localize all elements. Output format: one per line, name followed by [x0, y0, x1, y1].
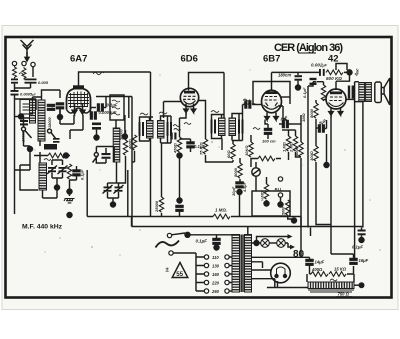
wire rail down	[179, 153, 181, 198]
triangle 55	[172, 263, 188, 278]
resistor 100	[314, 146, 318, 161]
tuning gang cap CV4	[115, 187, 123, 189]
node dot in box	[264, 201, 269, 206]
speaker field coil	[308, 282, 354, 289]
wire resistor row	[34, 155, 70, 157]
wire top of 1M 2M	[282, 129, 296, 131]
wire drop	[90, 108, 92, 116]
tuning gang cap CV3	[104, 187, 112, 189]
antenna	[21, 40, 34, 60]
capacitor 6D6 grid	[171, 133, 173, 140]
transformer IF1 unit B cap	[167, 122, 169, 136]
terminal mains	[169, 251, 173, 255]
output transformer coil A	[359, 83, 365, 102]
coil osc padder	[113, 128, 120, 162]
wire	[115, 120, 118, 183]
resistor box 30K	[44, 144, 57, 150]
coil L3 osc grid	[38, 100, 45, 141]
node dot osc	[28, 147, 33, 152]
wire join caps	[15, 84, 31, 88]
resistor 1M	[286, 136, 290, 151]
svg-text:0.1μF: 0.1μF	[196, 239, 208, 244]
svg-text:0.1μF: 0.1μF	[352, 245, 363, 250]
wire heater stub below bus	[310, 228, 312, 237]
power transformer primary	[232, 235, 240, 293]
svg-text:6D6: 6D6	[181, 54, 198, 65]
capacitor 6B7 plate decoupling	[297, 72, 299, 75]
wire taps to primary	[229, 257, 232, 291]
node dot loop	[19, 114, 24, 119]
svg-text:75 K Ω: 75 K Ω	[199, 141, 204, 155]
wire 50000 to dot	[288, 216, 292, 219]
svg-text:0.1μF: 0.1μF	[80, 169, 85, 180]
svg-text:30μF: 30μF	[231, 186, 236, 196]
resistor 75K	[205, 133, 207, 139]
resistor 60 ohm	[231, 144, 235, 159]
resistor grid leak	[321, 85, 325, 100]
label squiggle gang	[44, 159, 51, 161]
wire to coil top	[15, 99, 37, 110]
label squiggle 6B7 bias	[253, 128, 260, 130]
node dot 5000	[292, 218, 297, 223]
label squiggle field coil	[330, 279, 337, 281]
wire S1	[24, 118, 31, 146]
capacitor ant C2	[25, 79, 37, 81]
power transformer secondary	[245, 235, 252, 293]
label squiggle near 6D6 screen	[184, 123, 191, 125]
resistor 50000 vertical	[286, 200, 290, 215]
mains tilde	[156, 241, 180, 248]
svg-text:160: 160	[212, 272, 220, 277]
voltage taps right column	[225, 255, 229, 259]
ground main	[67, 213, 72, 218]
capacitor 30uF	[236, 182, 243, 188]
tube 6D6	[180, 88, 198, 112]
tube 6A7	[67, 85, 91, 114]
wire 6D6 grid riser	[189, 73, 225, 91]
svg-text:80: 80	[293, 249, 305, 260]
wire 6B7 screen box	[253, 82, 290, 105]
volume pot circle	[252, 168, 260, 176]
output transformer coil B	[366, 83, 372, 102]
capacitor 0.1 right	[361, 228, 363, 230]
bus A earth	[132, 216, 214, 218]
jack panel box	[252, 191, 290, 216]
power transformer core	[241, 235, 243, 293]
svg-text:0.1μF: 0.1μF	[302, 87, 307, 98]
svg-text:220: 220	[211, 281, 220, 286]
gang box wall left	[86, 170, 88, 217]
resistor zigzag padding	[48, 153, 65, 158]
wire HV to 80 lower	[252, 269, 273, 271]
gang box bottom	[87, 216, 131, 218]
wire cap to resistor	[310, 265, 312, 274]
wire heater bus	[96, 96, 132, 98]
resistor half meg	[264, 184, 268, 199]
voltage taps left column	[204, 255, 208, 259]
node dot cathode	[67, 189, 72, 194]
wire cathode to ground	[70, 180, 77, 196]
node dot under cap	[214, 245, 219, 250]
capacitor 16uF	[350, 259, 357, 265]
svg-text:0.002μF: 0.002μF	[311, 63, 328, 68]
resistor 1M bus	[213, 214, 230, 219]
resistor 600	[299, 142, 303, 157]
output transformer primary loop	[355, 82, 363, 102]
transformer IF2 unit A cap	[211, 120, 213, 134]
wire rail x354.6 down	[354, 102, 356, 258]
wire dot link	[24, 146, 31, 152]
node dot below cap	[296, 85, 301, 90]
wire 6B7 top to 42 grid chain	[272, 71, 320, 73]
capacitor mica left	[20, 120, 28, 122]
field coil core lines	[308, 290, 354, 292]
wire heater arrow top	[257, 237, 289, 244]
resistor 10K	[250, 135, 252, 142]
wire left rail	[14, 99, 16, 214]
svg-text:2 MΩ: 2 MΩ	[289, 141, 294, 153]
switch padder	[94, 153, 98, 157]
capacitor 8uF output	[348, 86, 350, 99]
wire rail x161 down with resistor 25000	[161, 143, 163, 197]
svg-text:8000: 8000	[309, 108, 314, 118]
resistor 8000	[314, 103, 318, 118]
wire left column links	[15, 117, 31, 171]
wire 6B7 grid cap riser	[271, 72, 273, 90]
svg-text:100Ω: 100Ω	[309, 150, 314, 161]
wire osc links	[40, 140, 57, 198]
node dot gang	[55, 185, 60, 190]
node dot field	[359, 282, 365, 288]
svg-text:55: 55	[176, 271, 183, 278]
switch S1 wave change	[22, 127, 26, 131]
svg-text:1MΩ: 1MΩ	[301, 112, 306, 122]
svg-text:260: 260	[211, 289, 220, 294]
transformer IF2 unit B coil	[229, 118, 236, 136]
svg-text:100cm: 100cm	[243, 101, 256, 106]
node dot	[58, 115, 63, 120]
svg-text:M.F. 440 kHz: M.F. 440 kHz	[22, 224, 63, 231]
capacitor 0.0005	[91, 112, 97, 119]
capacitor screen 0.1	[180, 139, 191, 142]
node dot resistor row	[64, 153, 69, 158]
wire gang	[52, 160, 63, 186]
bus A continue	[231, 216, 301, 218]
coupler loop top left	[20, 100, 33, 115]
svg-text:180cm: 180cm	[278, 73, 291, 78]
ground	[64, 199, 75, 203]
svg-text:15 KΩ: 15 KΩ	[334, 267, 347, 272]
wire 6B7 pin to rail	[292, 123, 301, 125]
wire 6A7 plate stub	[90, 107, 96, 109]
svg-text:14μF: 14μF	[315, 260, 325, 265]
wire rail x308	[308, 82, 316, 228]
svg-text:130: 130	[212, 264, 220, 269]
wire 80 filament out	[267, 281, 308, 288]
schematic border frame	[6, 37, 392, 298]
capacitor osc 0.1	[73, 170, 80, 176]
svg-text:6B7: 6B7	[263, 54, 280, 65]
capacitor C3 0.0001uF	[11, 90, 19, 92]
node dot	[177, 198, 182, 203]
node dot 42 grid	[347, 70, 352, 75]
wire loop over 500K	[336, 64, 347, 71]
wire IF1 tops	[140, 116, 172, 122]
svg-text:1 MΩ.: 1 MΩ.	[215, 208, 227, 213]
trimmer cap osc	[53, 138, 60, 140]
tube 80	[271, 263, 291, 283]
node dot end	[324, 163, 329, 168]
resistor osc 4000	[67, 164, 71, 179]
svg-text:100 cm: 100 cm	[262, 139, 276, 144]
svg-text:500 KΩ: 500 KΩ	[326, 76, 342, 81]
coil L1 antenna	[13, 66, 17, 78]
tube 6B7	[262, 90, 282, 120]
resistor 450 ohm	[177, 137, 181, 152]
wire IF2 mid drop	[221, 139, 223, 151]
wire rail x224 to IF2	[223, 73, 225, 119]
svg-text:½MΩ: ½MΩ	[260, 190, 265, 201]
switch mains	[167, 233, 171, 237]
wire rail x331 to bus	[331, 115, 354, 259]
svg-text:60Ω: 60Ω	[226, 150, 231, 158]
capacitor 14uF	[306, 260, 313, 266]
wire terminal 3 drop	[32, 67, 34, 77]
svg-text:6A7: 6A7	[70, 54, 87, 65]
tube 42	[326, 89, 346, 109]
wire antenna lead-in arrow	[25, 52, 29, 61]
svg-text:8000: 8000	[233, 167, 238, 177]
wire 6D6 cathode rail	[180, 112, 187, 137]
tuning gang cap CV2	[59, 167, 67, 169]
speaker cone	[381, 78, 390, 105]
transformer IF1 unit A cap	[139, 122, 141, 136]
node dot	[237, 190, 242, 195]
coil L2b antenna secondary	[30, 100, 36, 123]
wire 42 plate to transformer	[346, 98, 354, 100]
terminal PU 2	[278, 193, 282, 197]
resistor 2M	[293, 136, 297, 151]
wire 6B7 right pin to box wall	[281, 96, 290, 98]
speaker frame	[375, 82, 382, 103]
node dot gang2	[111, 202, 116, 207]
wire rail x132	[131, 97, 133, 227]
svg-text:5000: 5000	[282, 207, 286, 215]
capacitor right 0.1	[279, 106, 287, 121]
wire coil L3 top	[33, 90, 61, 100]
wire IF2 bottoms	[212, 134, 243, 141]
resistor 8000	[238, 163, 242, 178]
wire rail x150 down	[150, 72, 152, 217]
capacitor padder mica	[102, 153, 111, 155]
wire 42 grid lead	[317, 82, 324, 85]
capacitor 8uF	[316, 127, 319, 129]
terminal ant 1	[12, 61, 16, 65]
wire 6B7 left pin stub	[253, 104, 263, 106]
node dot	[122, 134, 127, 139]
wire IF2 tops	[212, 114, 243, 120]
svg-text:18000: 18000	[48, 117, 52, 128]
wire rail x316	[315, 100, 317, 103]
label squiggle near 6A7 grid	[93, 72, 104, 75]
svg-text:0.005: 0.005	[38, 80, 49, 85]
svg-text:450Ω: 450Ω	[173, 142, 178, 154]
svg-text:0.0005μF: 0.0005μF	[20, 92, 36, 97]
label squiggle above IF1 A	[140, 113, 148, 115]
wire 6D6 plate to 75K rail	[198, 101, 205, 134]
svg-text:750 Ω: 750 Ω	[338, 292, 350, 297]
node dot	[359, 238, 364, 243]
resistor padder	[123, 140, 127, 155]
resistor 1M horizontal	[258, 156, 275, 161]
label squiggle ant	[19, 73, 25, 75]
svg-text:110: 110	[212, 255, 219, 260]
wire 6A7 bottom pins down	[60, 110, 83, 139]
handwriting squiggle marks	[19, 72, 337, 281]
wire osc loop rect	[20, 165, 38, 190]
label squiggle above IF2 A	[211, 111, 219, 113]
terminal PU 1	[278, 177, 282, 181]
svg-text:25000: 25000	[154, 200, 159, 213]
wire transformer bottom down rail x362.9	[362, 102, 364, 228]
wire 6D6 grid to IF1 secondary	[164, 102, 182, 119]
gang box wall right	[127, 170, 129, 217]
wire 6A7 grid riser	[79, 72, 151, 89]
svg-text:4.5μF: 4.5μF	[243, 181, 247, 193]
wire rail x326 short	[326, 134, 328, 163]
capacitor 42 grid coupling	[310, 78, 317, 80]
wire 75K down then right	[206, 155, 234, 162]
pilot lamp 2	[277, 239, 286, 248]
node dot lamps	[254, 241, 259, 246]
svg-text:400Ω: 400Ω	[128, 138, 133, 150]
wire gang2 bottom	[108, 183, 119, 203]
transformer IF1 unit A coil	[147, 121, 154, 139]
wire IF1 bottoms	[140, 136, 172, 143]
node dot cathode	[177, 153, 182, 158]
wire secondary top stub	[247, 227, 249, 235]
terminal ant 3	[31, 62, 35, 66]
label squiggle right of IF1	[173, 125, 181, 131]
wire link	[96, 130, 98, 136]
wire 42 cathode pins	[329, 107, 343, 115]
tuning gang cap CV1	[48, 167, 56, 169]
label squiggle near det cap	[243, 99, 250, 101]
switch S2	[48, 129, 52, 133]
pilot lamp 1	[261, 239, 270, 248]
bus B	[132, 226, 363, 228]
wire to cap	[188, 235, 234, 238]
transformer IF2 unit B cap	[238, 120, 240, 134]
svg-text:600Ω: 600Ω	[294, 145, 299, 156]
capacitor 100cm	[265, 129, 272, 135]
resistor 500K	[326, 70, 343, 75]
coil small top left	[23, 104, 31, 110]
capacitor 0.1uF	[98, 104, 104, 111]
wire dot down to 42 grid stem	[336, 72, 350, 90]
label squiggle above IF1 B	[159, 112, 167, 114]
wire heater arrow bottom	[285, 243, 291, 247]
svg-text:1 MΩ: 1 MΩ	[282, 141, 287, 152]
transformer IF1 unit B coil	[158, 121, 165, 139]
wire secondary to lamps	[252, 242, 257, 244]
terminal ant 2	[22, 61, 26, 65]
wire padder down	[119, 130, 126, 183]
node dot	[94, 135, 99, 140]
screen note box	[110, 95, 124, 120]
wire to bus	[239, 192, 241, 217]
capacitor mica dark	[92, 123, 101, 126]
capacitor ant C1	[11, 79, 18, 81]
svg-text:CER (Aiglon 36): CER (Aiglon 36)	[274, 42, 343, 54]
coil L4 osc anode	[39, 163, 47, 190]
svg-text:10KΩ: 10KΩ	[244, 145, 249, 156]
capacitor C 0.002uF	[319, 69, 321, 76]
wire padder loop	[96, 147, 114, 164]
coil L2 antenna	[22, 67, 26, 79]
wire gang2 top	[108, 182, 120, 184]
capacitor 6A7 cathode	[57, 103, 64, 109]
scan noise specks (decorative)	[34, 54, 381, 256]
wire bus links	[132, 217, 302, 227]
resistor 400 ohm	[132, 135, 136, 150]
wire mains drop	[173, 253, 204, 291]
resistor 15K	[311, 272, 328, 277]
svg-text:16μF: 16μF	[359, 258, 369, 263]
wire HV line A to filter	[252, 257, 310, 259]
underline under Aiglon	[299, 53, 316, 54]
capacitor osc grid	[48, 105, 55, 111]
wire rail from 2M down	[300, 115, 302, 257]
capacitor det	[245, 101, 251, 108]
wire drop x128.8	[128, 97, 130, 119]
capacitor bypass	[176, 206, 183, 212]
transformer IF2 unit A coil	[219, 118, 226, 136]
capacitor line 0.1	[213, 239, 220, 245]
node dot in box 2	[278, 202, 283, 207]
wire HV to 80 plate	[252, 262, 263, 268]
svg-text:0.1μF: 0.1μF	[107, 103, 118, 108]
label squiggle osc coil	[47, 105, 54, 107]
wire HV bottom	[252, 279, 275, 288]
